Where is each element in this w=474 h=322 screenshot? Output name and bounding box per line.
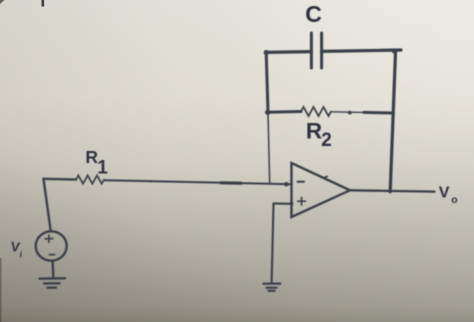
svg-text:o: o xyxy=(451,194,457,206)
svg-text:V: V xyxy=(439,185,450,202)
wire top-left (feedback top to left cap plate) xyxy=(266,50,311,54)
node R2 left junction xyxy=(265,110,270,115)
node R2 output dot xyxy=(348,111,352,115)
wire noninverting riser xyxy=(272,203,274,283)
resistor R2 xyxy=(301,107,331,116)
node inverting input xyxy=(284,182,288,186)
dark photo corner top-left xyxy=(0,0,5,4)
op-amp xyxy=(292,163,351,217)
wire input corner down to source xyxy=(44,179,51,232)
Vi minus xyxy=(49,254,54,256)
Vi plus xyxy=(45,235,52,242)
wire left rail lower xyxy=(268,113,270,184)
wire top-right (right cap plate to feedback corner) xyxy=(322,50,401,51)
tick on hypotenuse xyxy=(324,176,328,177)
wire right rail xyxy=(390,50,395,191)
node feedback top-left xyxy=(264,50,269,55)
svg-text:R: R xyxy=(306,118,322,143)
wire R2 left xyxy=(267,110,302,114)
ground (op-amp) xyxy=(263,284,280,291)
dark photo edge bottom-left xyxy=(0,258,2,322)
wire R2 right thick xyxy=(364,111,393,115)
resistor R1 xyxy=(76,175,104,183)
svg-text:1: 1 xyxy=(97,158,108,179)
ground (source) xyxy=(40,278,66,287)
stray pen tick top edge xyxy=(42,0,45,7)
node noninverting input xyxy=(290,202,294,206)
op-amp plus sign xyxy=(298,197,306,205)
label Vi xyxy=(9,239,24,260)
wire output xyxy=(350,190,435,191)
node output/feedback junction xyxy=(388,189,392,193)
wire input left xyxy=(44,178,77,181)
wire thick overlay segment xyxy=(221,181,241,185)
capacitor C xyxy=(311,33,321,68)
svg-text:C: C xyxy=(305,1,322,27)
wire R2 right thin xyxy=(331,111,364,114)
node feedback top-right xyxy=(392,49,397,54)
wire R1 to op-amp xyxy=(104,180,291,184)
voltage source Vi xyxy=(36,231,67,260)
op-amp minus sign xyxy=(298,181,305,183)
wire source to ground xyxy=(51,261,54,279)
wire tick xyxy=(149,180,151,182)
wire left rail upper xyxy=(266,52,268,112)
svg-text:2: 2 xyxy=(321,130,332,151)
wire noninverting input xyxy=(274,202,292,205)
